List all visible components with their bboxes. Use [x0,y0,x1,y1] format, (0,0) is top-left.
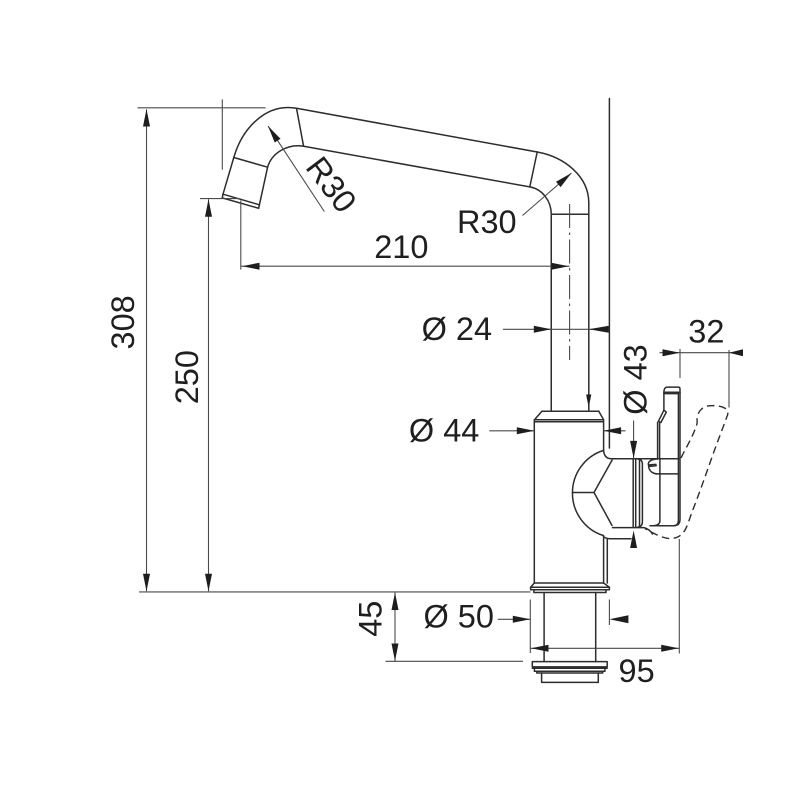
svg-text:Ø 43: Ø 43 [618,344,654,414]
svg-text:32: 32 [688,314,724,350]
svg-text:210: 210 [374,229,428,265]
svg-text:Ø 44: Ø 44 [409,413,479,449]
svg-text:250: 250 [169,350,205,404]
svg-text:Ø 50: Ø 50 [424,598,494,634]
svg-text:R30: R30 [457,204,517,240]
svg-text:308: 308 [105,295,141,349]
svg-text:95: 95 [619,653,655,689]
svg-text:Ø 24: Ø 24 [422,311,492,347]
svg-text:45: 45 [353,601,389,637]
